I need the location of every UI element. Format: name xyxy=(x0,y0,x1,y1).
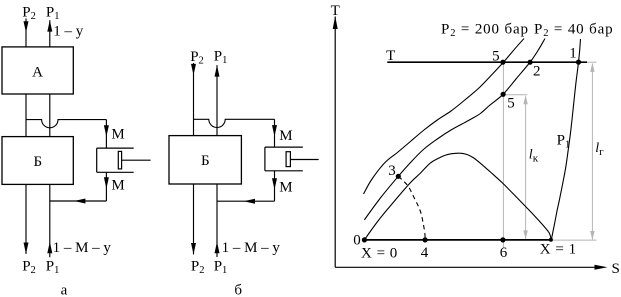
svg-text:1: 1 xyxy=(569,46,577,62)
svg-text:Б: Б xyxy=(33,154,42,170)
svg-text:0: 0 xyxy=(353,233,361,249)
svg-text:X = 1: X = 1 xyxy=(540,242,577,258)
svg-text:4: 4 xyxy=(421,245,429,261)
svg-text:М: М xyxy=(111,126,124,142)
svg-text:5: 5 xyxy=(507,96,515,112)
svg-text:1 – y: 1 – y xyxy=(53,24,83,40)
svg-text:А: А xyxy=(32,64,43,80)
svg-text:T: T xyxy=(386,48,395,64)
svg-text:3: 3 xyxy=(388,163,396,179)
svg-text:S: S xyxy=(612,261,620,277)
svg-text:Б: Б xyxy=(201,153,210,169)
svg-text:б: б xyxy=(234,283,242,297)
svg-text:T: T xyxy=(331,3,340,19)
svg-text:М: М xyxy=(279,180,292,196)
svg-text:1 – M – y: 1 – M – y xyxy=(222,240,281,256)
svg-text:6: 6 xyxy=(500,245,508,261)
svg-text:М: М xyxy=(279,128,292,144)
svg-text:а: а xyxy=(61,283,68,297)
svg-text:X = 0: X = 0 xyxy=(361,246,398,262)
svg-text:1 – M – y: 1 – M – y xyxy=(53,240,112,256)
svg-text:2: 2 xyxy=(533,63,541,79)
svg-text:М: М xyxy=(111,178,124,194)
svg-text:5: 5 xyxy=(492,48,500,64)
